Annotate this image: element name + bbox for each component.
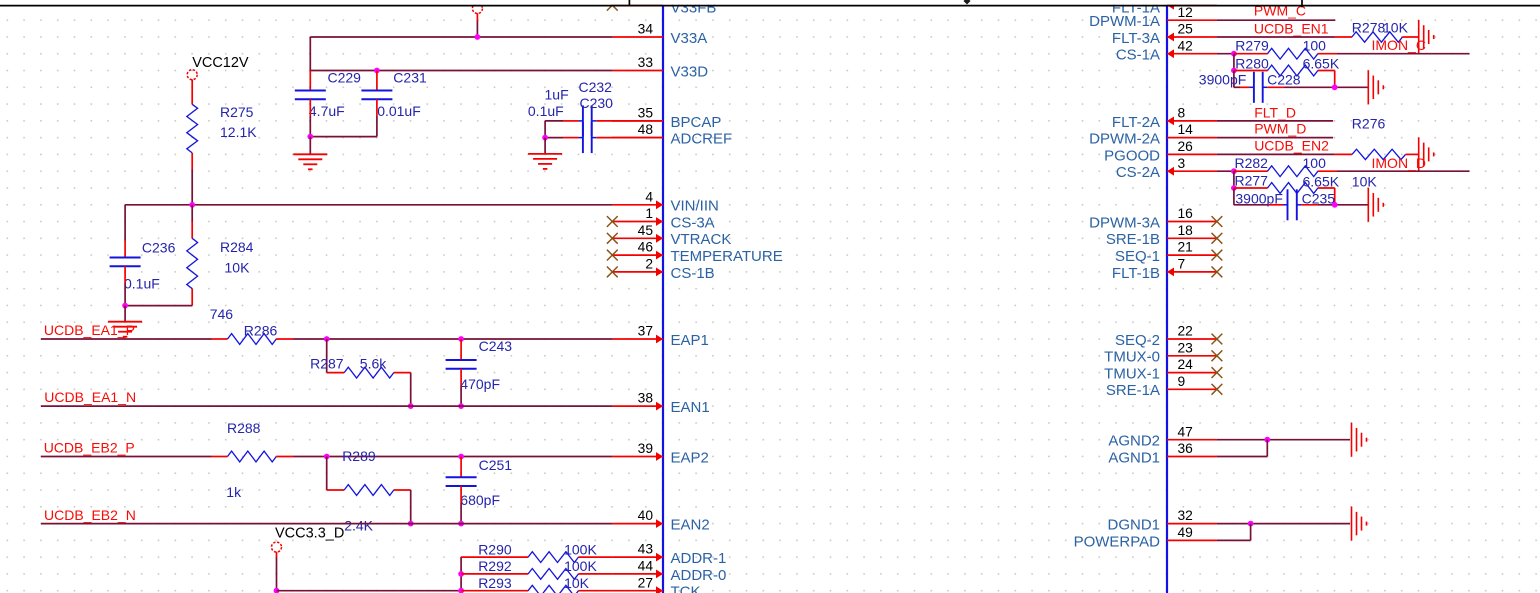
svg-text:UCDB_EN2: UCDB_EN2 [1254,137,1329,153]
svg-text:AGND2: AGND2 [1108,433,1160,450]
capacitor C243 [446,359,477,361]
wire C229 bottom [309,116,311,137]
pin DGND1 (32) right [1167,523,1217,525]
ground below C236 [108,321,142,323]
resistor R290 [461,556,528,558]
svg-text:100: 100 [1303,38,1327,54]
junction R277 node [1231,185,1237,191]
wire R286 to EAP1 pin [293,338,612,340]
wire CS-2A to node [1217,170,1234,172]
svg-text:SEQ-2: SEQ-2 [1115,332,1160,349]
pin SEQ-2 (22) right [1167,338,1217,340]
svg-text:10K: 10K [564,575,590,591]
junction EAN1 / R287 [408,403,414,409]
junction VCC3.3 / TCK row [274,588,280,593]
ground right of R276 [1418,137,1420,171]
wire UCDB_EN2 row [1217,153,1335,155]
pin V33D (33) left [612,70,663,72]
capacitor C232 [582,105,584,136]
wire IMON_D [1337,170,1470,172]
svg-text:37: 37 [638,324,653,339]
junction VIN row / R275 [189,202,195,208]
wire VCC3.3_D down [276,558,278,591]
svg-text:ADDR-1: ADDR-1 [671,550,727,567]
svg-text:2: 2 [645,257,653,272]
pin FLT-2A (8) right [1167,120,1217,122]
svg-text:FLT_D: FLT_D [1254,105,1296,121]
svg-text:24: 24 [1178,357,1194,372]
svg-text:48: 48 [638,122,654,137]
svg-text:49: 49 [1178,525,1194,540]
svg-text:R287: R287 [310,356,344,372]
wire R287 down to EAN1 [410,373,412,407]
pin TMUX-1 (24) right [1167,372,1217,374]
svg-text:100K: 100K [564,541,597,557]
pin CS-1B (2) left [612,271,663,273]
pin ADCREF (48) left [612,137,663,139]
pin wire C228 left [1240,86,1249,88]
pin wire C231 top [376,71,378,91]
pin wire C236 top [124,241,126,258]
svg-text:10K: 10K [1383,19,1409,35]
wire R289 branch down [326,457,328,491]
svg-text:26: 26 [1178,139,1194,154]
svg-text:470pF: 470pF [460,376,500,392]
wire PWM_D row [1217,137,1333,139]
svg-text:R292: R292 [478,558,512,574]
svg-text:VCC12V: VCC12V [192,55,249,71]
junction CS-1A node [1231,51,1237,57]
svg-text:100: 100 [1303,155,1327,171]
wire ADCREF row red [596,137,663,139]
wire PWM_C row [1217,19,1335,21]
svg-text:R275: R275 [220,104,254,120]
wire CS-1A to node [1217,53,1234,55]
pin AGND1 (36) right [1167,456,1217,458]
svg-text:C230: C230 [580,95,614,111]
svg-text:CS-1B: CS-1B [671,265,715,282]
junction EAP1 / C243 [458,336,464,342]
junction gnd node C229 [307,134,313,140]
pin VTRACK (45) left [612,237,663,239]
svg-text:12.1K: 12.1K [220,124,257,140]
power port top (V33A) [472,4,482,14]
wire VCC12V to R275 [191,79,193,104]
wire VIN row down to C236 [124,205,126,241]
junction AGND node [1264,437,1270,443]
pin PGOOD (26) right [1167,153,1217,155]
capacitor C228 [1253,72,1255,103]
wire V33A row [310,36,612,38]
svg-text:EAN2: EAN2 [671,517,710,534]
pin V33A (34) left [612,36,663,38]
resistor R292 [461,573,528,575]
svg-text:AGND1: AGND1 [1108,449,1160,466]
capacitor C235 [1287,189,1289,220]
svg-text:R280: R280 [1235,55,1269,71]
svg-text:38: 38 [638,391,654,406]
wire FLT_D row [1217,120,1333,122]
pin wire R284 bottom [191,289,193,306]
wire UCDB_EB2_P row [41,456,212,458]
svg-text:PGOOD: PGOOD [1104,147,1160,164]
svg-text:C231: C231 [393,70,427,86]
pin EAP2 (39) left [612,456,663,458]
pin TCK (27) left [612,590,663,592]
pin EAN1 (38) left [612,405,663,407]
pin wire C228 right [1267,86,1284,88]
svg-text:C229: C229 [328,70,362,86]
pin EAN2 (40) left [612,523,663,525]
svg-text:C228: C228 [1267,71,1301,87]
svg-text:R276: R276 [1352,116,1386,132]
pin BPCAP (35) left [612,120,663,122]
svg-text:0.1uF: 0.1uF [124,275,160,291]
wire BPCAP row red [596,120,663,122]
junction DGND node [1248,521,1254,527]
wire C235 to gnd [1318,204,1369,206]
wire UCDB_EN1 row [1217,36,1335,38]
svg-text:FLT-2A: FLT-2A [1112,114,1160,131]
svg-text:TEMPERATURE: TEMPERATURE [671,248,783,265]
pin POWERPAD (49) right [1167,539,1217,541]
wire UCDB_EB2_N row [41,523,612,525]
wire R287 branch down [326,339,328,373]
svg-text:R290: R290 [478,541,512,557]
resistor R282 [1234,170,1268,172]
pin CS-2A (3) right [1167,170,1217,172]
svg-text:C243: C243 [479,338,513,354]
svg-text:32: 32 [1178,508,1193,523]
junction gnd node C236 [122,303,128,309]
junction ADDR bus / R293 [458,588,464,593]
pin wire C232 left [563,120,578,122]
capacitor C231 [361,90,392,92]
svg-text:46: 46 [638,240,654,255]
svg-text:33: 33 [638,55,654,70]
resistor R280 [1234,70,1268,72]
wire AGND1 up [1266,440,1268,457]
svg-text:42: 42 [1178,38,1193,53]
wire gnd stub C229 [309,137,311,155]
pin wire VCC3.3_D [276,552,278,558]
wire R288 to EAP2 pin [293,456,612,458]
svg-text:CS-2A: CS-2A [1116,164,1160,181]
pin wire C229 bottom [309,99,311,116]
svg-text:14: 14 [1178,122,1194,137]
pin wire C235 right [1301,204,1318,206]
resistor R277 [1234,187,1268,189]
svg-text:100K: 100K [564,558,597,574]
pin DPWM-3A (16) right [1167,221,1217,223]
svg-text:R284: R284 [220,239,254,255]
resistor R278 [1334,36,1352,38]
pin FLT-1A (n/a) right [1167,4,1217,6]
svg-text:UCDB_EN1: UCDB_EN1 [1254,20,1329,36]
svg-text:C251: C251 [479,457,513,473]
svg-text:2.4K: 2.4K [344,517,373,533]
svg-text:R293: R293 [478,575,512,591]
svg-text:TCK: TCK [671,584,701,593]
svg-text:UCDB_EA1_N: UCDB_EA1_N [44,389,136,405]
wire R277 down to C235 row [1334,188,1336,205]
svg-text:39: 39 [638,441,654,456]
pin VIN/IIN (4) left [612,204,663,206]
svg-text:R278: R278 [1352,19,1386,35]
pin wire C231 bottom [376,99,378,116]
svg-text:UCDB_EB2_N: UCDB_EB2_N [44,507,136,523]
svg-text:40: 40 [638,508,654,523]
pin DPWM-1A (12) right [1167,19,1217,21]
pin TMUX-0 (23) right [1167,355,1217,357]
junction EAP2 / R289 [324,454,330,460]
junction CS-2A node [1231,168,1237,174]
svg-text:POWERPAD: POWERPAD [1074,533,1161,550]
junction ADDR bus / R292 [458,571,464,577]
junction C235 / R277 [1332,202,1338,208]
capacitor C251 [446,476,477,478]
svg-text:DPWM-2A: DPWM-2A [1089,131,1160,148]
svg-text:0.1uF: 0.1uF [528,103,564,119]
wire C236 to gnd node [124,283,126,306]
wire POWERPAD over [1217,539,1251,541]
svg-text:47: 47 [1178,424,1193,439]
svg-text:8: 8 [1178,106,1186,121]
svg-text:4: 4 [645,189,653,204]
wire R275 to VIN node [191,170,193,205]
wire UCDB_EA1_N row [41,405,612,407]
capacitor C236 [110,257,141,259]
svg-text:EAN1: EAN1 [671,399,710,416]
power port VCC12V [187,70,197,80]
pin SRE-1A (9) right [1167,388,1217,390]
svg-text:R286: R286 [244,323,278,339]
svg-text:FLT-1B: FLT-1B [1112,265,1160,282]
svg-text:3900pF: 3900pF [1235,190,1282,206]
svg-text:1: 1 [645,206,653,221]
svg-text:12: 12 [1178,5,1193,20]
wire CS-2A node down [1233,171,1235,188]
sheet border top line [0,5,1540,7]
svg-text:10K: 10K [1352,174,1378,190]
svg-text:44: 44 [638,559,654,574]
junction EAP1 / R287 [324,336,330,342]
pin wire C236 bottom [124,266,126,283]
svg-text:21: 21 [1178,240,1193,255]
svg-text:DPWM-3A: DPWM-3A [1089,214,1160,231]
wire UCDB_EA1_P row [41,338,212,340]
sheet border tick 2 [1301,0,1303,7]
ground right of C228 [1367,70,1369,104]
pin EAP1 (37) left [612,338,663,340]
svg-text:R282: R282 [1235,155,1269,171]
pin SEQ-1 (21) right [1167,254,1217,256]
svg-text:45: 45 [638,223,654,238]
resistor R287 [327,372,345,374]
svg-text:27: 27 [638,575,653,590]
wire AGND1 over [1217,456,1267,458]
svg-text:C232: C232 [579,79,613,95]
pin ADDR-1 (43) left [612,556,663,558]
svg-text:SRE-1B: SRE-1B [1106,231,1160,248]
capacitor C230 [582,122,584,153]
svg-text:UCDB_EA1_P: UCDB_EA1_P [44,322,135,338]
svg-text:22: 22 [1178,324,1193,339]
svg-text:23: 23 [1178,340,1194,355]
junction EAP2 / C251 [458,454,464,460]
svg-text:DGND1: DGND1 [1107,517,1160,534]
sheet marker diamond [964,0,971,5]
svg-text:VIN/IIN: VIN/IIN [671,198,719,215]
svg-text:IMON_D: IMON_D [1372,155,1426,171]
svg-text:SRE-1A: SRE-1A [1106,382,1160,399]
wire C243 to EAN1 [460,386,462,407]
IC U46 left border [662,7,664,593]
wire C230 left to gnd [545,137,563,139]
wire gnd stub [124,306,126,322]
power port VCC3.3_D [272,542,282,552]
wire VIN/IIN row [125,204,612,206]
svg-text:CS-3A: CS-3A [671,214,715,231]
svg-text:3: 3 [1178,156,1186,171]
wire CS-1A node down [1233,54,1235,71]
pin wire C251 bottom [460,486,462,503]
pin DPWM-2A (14) right [1167,137,1217,139]
svg-text:TMUX-1: TMUX-1 [1104,366,1160,383]
junction C231 top tee [374,68,380,74]
wire ADDR bus vertical [460,557,462,591]
svg-text:VTRACK: VTRACK [671,231,732,248]
wire gnd stub C230 [544,138,546,154]
resistor R288 [212,456,228,458]
pin wire C243 bottom [460,369,462,386]
wire top port drop [476,20,478,37]
pin FLT-1B (7) right [1167,271,1217,273]
svg-text:5.6k: 5.6k [360,356,387,372]
svg-text:V33A: V33A [671,30,708,47]
svg-text:36: 36 [1178,441,1194,456]
ground below C232/C230 [528,153,562,155]
svg-text:ADCREF: ADCREF [671,131,733,148]
wire V33D row [310,70,612,72]
wire R280 down to C228 row [1334,71,1336,88]
svg-text:BPCAP: BPCAP [671,114,722,131]
svg-text:7: 7 [1178,257,1186,272]
svg-text:R288: R288 [227,420,261,436]
wire POWERPAD up [1250,524,1252,541]
svg-text:VCC3.3_D: VCC3.3_D [275,525,344,541]
junction C230 gnd node [542,135,548,141]
svg-text:0.01uF: 0.01uF [377,103,421,119]
junction EAN2 / C251 [458,521,464,527]
svg-text:PWM_D: PWM_D [1254,121,1306,137]
pin ADDR-0 (44) left [612,573,663,575]
svg-text:C236: C236 [142,240,176,256]
svg-text:SEQ-1: SEQ-1 [1115,248,1160,265]
wire IMON_C [1337,53,1470,55]
pin wire C235 left [1269,204,1283,206]
svg-text:6.65K: 6.65K [1303,174,1340,190]
svg-text:35: 35 [638,106,654,121]
svg-text:6.65K: 6.65K [1303,55,1340,71]
wire C232 left corner [545,120,563,122]
junction R280 node [1231,68,1237,74]
resistor R293 [461,590,528,592]
svg-text:680pF: 680pF [460,492,500,508]
resistor R279 [1234,53,1268,55]
pin V33FB (n/a) left [612,4,663,6]
junction EAN1 / C243 [458,403,464,409]
svg-text:10K: 10K [225,259,251,275]
svg-text:DPWM-1A: DPWM-1A [1089,13,1160,30]
wire node down to C235 [1233,188,1235,205]
resistor R289 [327,489,345,491]
pin wire C251 top [460,457,462,478]
pin CS-3A (1) left [612,221,663,223]
wire TCK row [277,590,462,592]
wire DGND1 to gnd [1217,523,1350,525]
wire C231 bottom to gnd node [376,116,378,137]
svg-text:UCDB_EB2_P: UCDB_EB2_P [44,440,135,456]
svg-text:EAP1: EAP1 [671,332,709,349]
junction EAN2 / R289 [408,521,414,527]
wire AGND2 to gnd [1217,439,1350,441]
ground right of DGND [1351,507,1353,541]
svg-text:4.7uF: 4.7uF [309,103,345,119]
svg-text:1uF: 1uF [545,87,569,103]
svg-text:16: 16 [1178,206,1194,221]
resistor R276 [1334,153,1352,155]
pin wire C229 top [309,71,311,91]
resistor R286 [212,338,228,340]
pin wire C243 top [460,339,462,360]
pin wire C230 left [563,137,578,139]
resistor R275 [187,104,198,153]
ground right of R278 [1418,20,1420,54]
svg-text:34: 34 [638,22,654,37]
junction V33A / port [475,34,481,40]
pin AGND2 (47) right [1167,439,1217,441]
wire V33A corner down [309,37,311,71]
pin TEMPERATURE (46) left [612,254,663,256]
wire node down to C228 [1233,71,1235,88]
svg-text:1k: 1k [226,484,242,500]
ground right of C235 [1367,188,1369,222]
pin FLT-3A (25) right [1167,36,1217,38]
ground below C229 [293,153,327,155]
svg-text:TMUX-0: TMUX-0 [1104,349,1160,366]
pin SRE-1B (18) right [1167,237,1217,239]
svg-text:18: 18 [1178,223,1194,238]
svg-text:ADDR-0: ADDR-0 [671,567,727,584]
capacitor C229 [295,90,326,92]
svg-text:9: 9 [1178,374,1186,389]
svg-text:746: 746 [210,306,234,322]
wire R284 to gnd node [125,305,192,307]
svg-text:43: 43 [638,542,654,557]
svg-text:FLT-3A: FLT-3A [1112,30,1160,47]
svg-text:R279: R279 [1235,38,1269,54]
wire C251 to EAN2 [460,503,462,524]
resistor R284 [191,205,193,222]
svg-text:EAP2: EAP2 [671,449,709,466]
svg-text:IMON_C: IMON_C [1372,37,1426,53]
wire C228 to gnd [1284,86,1368,88]
junction C228 / R280 [1332,84,1338,90]
ground right of AGND [1351,423,1353,457]
pin CS-1A (42) right [1167,53,1217,55]
svg-text:R289: R289 [342,448,376,464]
